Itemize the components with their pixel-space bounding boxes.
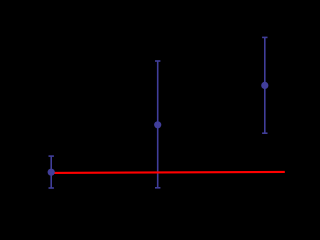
- marker point 1: [48, 169, 55, 176]
- error bar 1 top cap: [49, 155, 54, 157]
- error bar 3 top cap: [262, 36, 267, 38]
- marker point 3: [261, 82, 268, 89]
- error bar 3 stem: [264, 37, 266, 133]
- error bar 3 bottom cap: [262, 132, 267, 134]
- error bar 2 stem: [157, 61, 159, 188]
- error bar 2 bottom cap: [155, 187, 160, 189]
- marker point 2: [154, 121, 161, 128]
- red fit line: [51, 172, 285, 173]
- error bar 1 bottom cap: [49, 187, 54, 189]
- error bar 1 stem: [50, 156, 52, 188]
- error bar 2 top cap: [155, 60, 160, 62]
